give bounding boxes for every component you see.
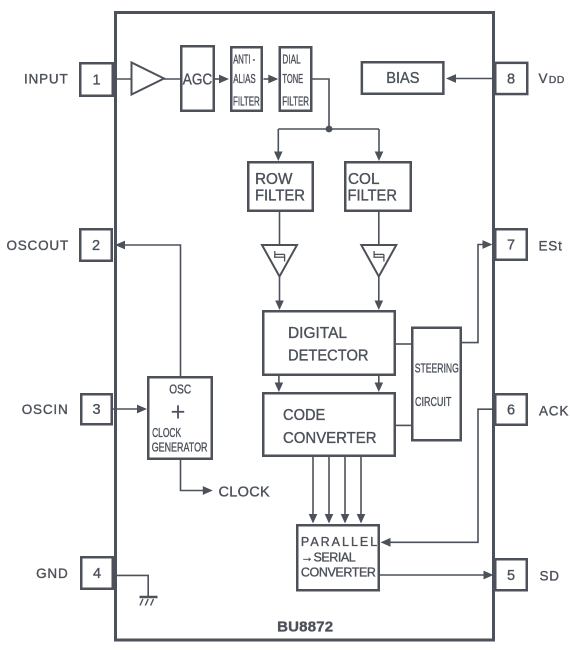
steering circuit block [412, 328, 461, 441]
osc clock generator block [148, 377, 212, 459]
wire pin 8 to bias [455, 78, 494, 80]
svg-text:BIAS: BIAS [386, 70, 419, 87]
svg-text:STEERING: STEERING [415, 361, 459, 375]
svg-text:CLOCK: CLOCK [152, 426, 181, 440]
svg-text:2: 2 [92, 238, 100, 254]
svg-text:AGC: AGC [183, 71, 213, 88]
svg-text:→: → [301, 550, 314, 564]
comparator col [361, 245, 396, 277]
code converter block [263, 393, 395, 456]
svg-text:OSCIN: OSCIN [22, 402, 69, 417]
wire code converter to parallel serial 1 [312, 457, 314, 515]
svg-text:5: 5 [507, 568, 515, 584]
wire digital detector to steering circuit [396, 343, 411, 345]
wire osc to clock label [181, 459, 204, 491]
svg-text:GND: GND [36, 566, 68, 581]
svg-text:ROW: ROW [255, 171, 293, 188]
svg-text:ACK: ACK [539, 403, 569, 418]
chip boundary BU8872 [116, 13, 494, 641]
comparator row [262, 245, 297, 277]
svg-text:DD: DD [549, 74, 565, 86]
wire junction horizontal [278, 128, 379, 130]
wire pin 6 to parallel serial converter [390, 409, 494, 542]
svg-text:CODE: CODE [283, 407, 325, 424]
svg-text:CIRCUIT: CIRCUIT [415, 395, 452, 409]
wire code converter to parallel serial 3 [344, 457, 346, 515]
svg-text:1: 1 [92, 73, 100, 89]
svg-text:FILTER: FILTER [255, 188, 305, 205]
wire pin 4 to ground [114, 575, 148, 596]
svg-text:4: 4 [93, 566, 101, 582]
wire comparator col to digital detector [378, 277, 380, 302]
pin 7 box [495, 229, 527, 260]
wire code converter to steering circuit [396, 424, 411, 426]
svg-text:TONE: TONE [282, 72, 303, 86]
wire col filter to comparator [378, 212, 380, 245]
col filter block [345, 162, 411, 211]
svg-text:FILTER: FILTER [348, 188, 397, 205]
bias block [362, 62, 444, 94]
wire amplifier to AGC [164, 78, 181, 80]
wire junction to col filter [378, 129, 380, 152]
parallel serial converter block [297, 525, 379, 590]
svg-text:OSCOUT: OSCOUT [6, 238, 69, 253]
svg-text:3: 3 [92, 402, 100, 418]
svg-text:V: V [539, 71, 549, 86]
wire dial tone filter to junction [312, 79, 329, 129]
wire pin1 to amplifier [114, 78, 132, 80]
svg-text:CONVERTER: CONVERTER [301, 566, 376, 580]
wire AGC to anti-alias filter [215, 78, 221, 80]
svg-text:GENERATOR: GENERATOR [152, 441, 208, 455]
wire code converter to parallel serial 4 [360, 457, 362, 515]
wire digital detector to code converter left [278, 376, 280, 384]
pin 6 box [495, 394, 527, 425]
svg-text:ESt: ESt [539, 238, 563, 253]
pin 2 box [80, 229, 112, 261]
svg-text:BU8872: BU8872 [277, 619, 333, 636]
wire code converter to parallel serial 2 [328, 457, 330, 515]
svg-text:OSC: OSC [169, 382, 191, 396]
svg-text:COL: COL [348, 171, 379, 188]
wire parallel serial converter to pin 5 [380, 574, 484, 576]
wire pin 3 to osc [113, 408, 138, 410]
pin 8 box [495, 63, 527, 94]
svg-text:ALIAS: ALIAS [233, 72, 256, 86]
svg-text:PARALLEL: PARALLEL [301, 535, 377, 549]
pin 4 box [81, 557, 113, 589]
svg-text:ANTI -: ANTI - [233, 52, 255, 66]
svg-text:SD: SD [540, 568, 560, 583]
svg-text:DIGITAL: DIGITAL [288, 325, 347, 342]
svg-text:DIAL: DIAL [282, 52, 300, 66]
amplifier A1 [132, 63, 165, 95]
svg-text:FILTER: FILTER [282, 94, 309, 108]
anti-alias filter block [231, 47, 262, 111]
pin 3 box [81, 394, 112, 424]
wire osc to pin 2 [124, 245, 181, 376]
svg-text:8: 8 [507, 72, 515, 88]
svg-text:SERIAL: SERIAL [314, 550, 356, 564]
digital detector block [263, 311, 395, 375]
svg-text:INPUT: INPUT [24, 72, 69, 87]
svg-text:CONVERTER: CONVERTER [283, 430, 377, 447]
node junction [326, 126, 333, 133]
svg-text:DETECTOR: DETECTOR [288, 347, 369, 364]
wire junction to row filter [277, 129, 279, 152]
row filter block [248, 162, 313, 211]
wire comparator row to digital detector [279, 277, 281, 302]
svg-text:6: 6 [507, 403, 515, 419]
pin 1 box [80, 63, 113, 96]
AGC block [181, 46, 214, 111]
svg-text:7: 7 [507, 238, 515, 254]
wire digital detector to code converter right [378, 376, 380, 384]
wire row filter to comparator [279, 212, 281, 245]
ground [140, 596, 158, 599]
pin 5 box [495, 559, 527, 590]
wire anti-alias to dial tone filter [264, 78, 270, 80]
svg-text:FILTER: FILTER [233, 94, 260, 108]
dial tone filter block [280, 47, 312, 111]
wire steering circuit to pin 7 [462, 245, 483, 343]
svg-text:CLOCK: CLOCK [219, 485, 270, 501]
